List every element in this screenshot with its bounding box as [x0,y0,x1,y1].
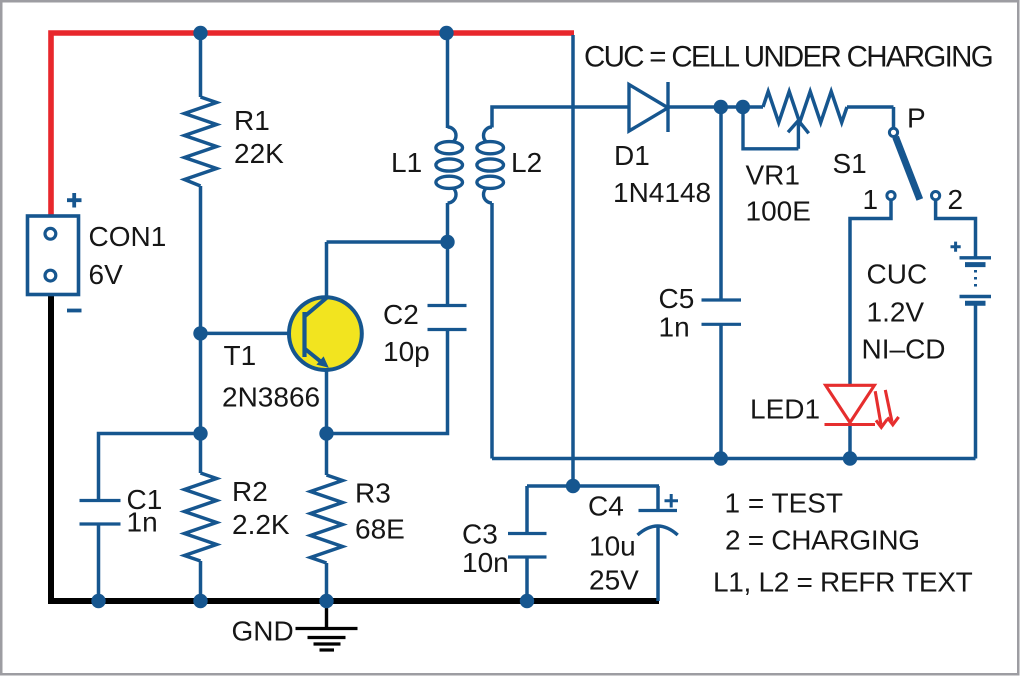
svg-text:1 = TEST: 1 = TEST [725,488,844,519]
svg-text:R2: R2 [232,476,268,507]
battery CUC [960,258,992,303]
label C1 1n [127,484,163,538]
svg-text:C5: C5 [659,283,695,314]
wire R2 bottom [199,561,203,601]
svg-text:L1: L1 [391,147,422,178]
svg-text:L2: L2 [511,147,542,178]
label C5 1n [659,283,695,343]
capacitor C5 [702,300,742,324]
label VR1 100E [746,160,811,227]
svg-text:1n: 1n [127,507,158,538]
svg-text:25V: 25V [589,565,639,596]
label CON1 6V [89,221,167,290]
inductor L1 [436,127,463,203]
wire contact2 to battery [936,200,976,258]
wire emitter drop [325,368,329,475]
capacitor C3 [508,534,547,558]
label LED1 [750,394,820,425]
wire LED to node [848,424,852,459]
resistor R3 [311,475,343,563]
svg-text:T1: T1 [224,340,257,371]
label L2 [511,147,542,178]
junction node L1/rail [439,26,453,40]
wire C4 top [656,486,660,511]
junction node R1/rail [193,26,207,40]
svg-text:D1: D1 [614,140,650,171]
label 1 [863,184,879,215]
GND symbol [296,603,358,650]
junction node C5/bottom [714,451,728,465]
label C4 10u 25V [588,491,639,596]
junction node R3/ground [319,594,333,608]
svg-text:CON1: CON1 [89,221,167,252]
label S1 [833,148,867,179]
junction node R2/ground [193,594,207,608]
svg-text:2.2K: 2.2K [232,509,290,540]
resistor R1 [185,97,217,186]
junction node collector/L1 [440,235,454,249]
potentiometer VR1 [743,92,894,123]
junction node feedback/bus [566,479,580,493]
svg-text:LED1: LED1 [750,394,820,425]
legend 1 = TEST [725,488,844,519]
wire base [201,332,305,336]
wire C5 bottom [719,324,723,458]
svg-text:2: 2 [948,184,964,215]
wire L2 top lead to diode [492,107,629,128]
label T1 2N3866 [222,340,320,413]
svg-text:VR1: VR1 [746,160,800,191]
inductor L2 [477,127,504,203]
switch S1 blade [896,137,920,200]
svg-text:22K: 22K [234,138,284,169]
svg-text:C3: C3 [462,519,498,550]
svg-text:10u: 10u [589,531,636,562]
junction node D1/C5 [714,100,728,114]
svg-text:2N3866: 2N3866 [222,382,320,413]
label R3 68E [355,478,405,545]
junction node D1/VR1 [736,100,750,114]
capacitor C4 (electrolytic) [638,511,678,536]
label 2 [948,184,964,215]
diode D1 [629,82,668,132]
+6V rail wire (red) [51,33,574,216]
wire C3/C4 bus [527,484,659,488]
wire R1 top lead [199,33,203,97]
label R2 2.2K [232,476,290,540]
label GND [232,616,294,647]
label P [907,103,926,134]
LED1 [825,385,899,427]
title text [584,41,992,74]
wire base node to C1 [99,434,201,501]
svg-text:P: P [907,103,926,134]
junction node base [193,326,207,340]
switch S1 pole P [889,128,897,136]
wire L1 bottom lead [446,203,450,242]
legend L1, L2 = REFR TEXT [713,567,973,598]
connector CON1 [28,216,79,295]
svg-text:S1: S1 [833,148,867,179]
wire main feedback vertical [571,35,575,486]
wire to switch pole [892,107,896,128]
junction node emitter/C2 [319,426,333,440]
wire R3 bottom [325,563,329,601]
wire collector riser [327,242,448,298]
label D1 1N4148 [613,140,711,208]
svg-text:R1: R1 [234,105,270,136]
svg-text:1N4148: 1N4148 [613,177,711,208]
VR1 wiper arrow [743,109,809,149]
svg-text:10p: 10p [383,336,430,367]
polarity - of CON1 [67,309,82,313]
junction node LED/bottom [843,451,857,465]
label L1 [391,147,422,178]
polarity + of battery [951,242,961,252]
capacitor C1 [80,501,121,525]
junction node C1/R2 [193,426,207,440]
wire R1 bottom to R2 [199,186,203,473]
wire bottom node [492,457,976,461]
resistor R2 [185,473,217,561]
svg-text:CUC: CUC [867,259,928,290]
label C2 10p [383,299,430,367]
label C3 10n [462,519,509,579]
wire C5 top [719,107,723,300]
wire diode cathode [668,105,743,109]
wire battery bottom to node [974,305,978,459]
label CUC 1.2V NI-CD [862,259,946,365]
junction node C3/ground [520,594,534,608]
wire C3 bottom [525,557,529,601]
wire C1 bottom [97,524,101,601]
svg-text:L1, L2 = REFR TEXT: L1, L2 = REFR TEXT [713,567,973,598]
wire C2 top [446,242,450,306]
svg-text:CUC = CELL UNDER CHARGING: CUC = CELL UNDER CHARGING [584,41,992,74]
switch contact 2 [932,192,940,200]
wire L2 bottom lead [490,203,494,459]
wire C3 top [525,486,529,534]
svg-text:NI–CD: NI–CD [862,334,946,365]
ground rail wire (black) [51,294,659,601]
wire contact1 to LED [850,200,891,386]
transistor T1 [289,297,362,370]
wire C2 bottom to emitter [327,330,448,434]
svg-text:2 = CHARGING: 2 = CHARGING [725,525,920,556]
svg-text:1n: 1n [659,312,690,343]
svg-text:100E: 100E [746,196,811,227]
junction node C1/ground [91,594,105,608]
svg-text:R3: R3 [355,478,391,509]
svg-text:C2: C2 [383,299,419,330]
switch contact 1 [887,192,895,200]
capacitor C2 [428,306,467,330]
polarity + of CON1 [67,193,82,208]
svg-text:68E: 68E [355,514,405,545]
svg-text:1.2V: 1.2V [867,297,925,328]
svg-text:C4: C4 [588,491,624,522]
svg-text:6V: 6V [89,259,124,290]
wire L1 top lead [446,33,450,128]
label R1 22K [234,105,284,169]
svg-text:1: 1 [863,184,879,215]
legend 2 = CHARGING [725,525,920,556]
svg-text:GND: GND [232,616,294,647]
wire C4 bottom [656,527,660,601]
polarity + of C4 [665,494,679,508]
svg-text:10n: 10n [462,547,509,578]
